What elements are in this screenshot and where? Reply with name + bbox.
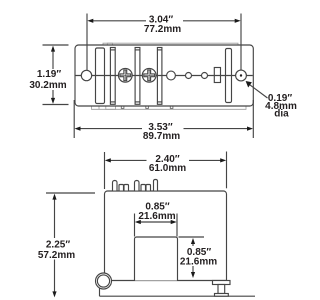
svg-text:57.2mm: 57.2mm: [38, 250, 75, 261]
svg-text:21.6mm: 21.6mm: [180, 257, 217, 268]
svg-text:61.0mm: 61.0mm: [149, 163, 186, 174]
svg-text:2.25″: 2.25″: [46, 240, 70, 251]
svg-text:dia: dia: [274, 109, 289, 120]
svg-text:77.2mm: 77.2mm: [144, 24, 181, 35]
svg-text:21.6mm: 21.6mm: [138, 211, 175, 222]
svg-text:89.7mm: 89.7mm: [143, 131, 180, 142]
svg-text:1.19″: 1.19″: [37, 69, 61, 80]
svg-text:30.2mm: 30.2mm: [29, 80, 66, 91]
